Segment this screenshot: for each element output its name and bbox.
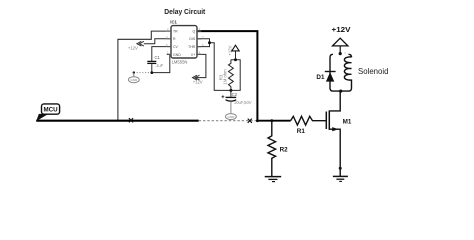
svg-text:R1: R1 [297,128,306,135]
svg-text:D1: D1 [316,74,325,81]
svg-text:R2: R2 [280,147,289,154]
svg-text:10uF,50V: 10uF,50V [234,100,252,105]
svg-text:GND: GND [173,53,181,57]
svg-text:M1: M1 [343,118,352,125]
svg-text:.1uF: .1uF [155,63,164,68]
svg-text:+12V: +12V [193,80,203,85]
svg-text:C2: C2 [232,92,238,97]
svg-text:MCU: MCU [43,107,58,114]
svg-text:GND: GND [130,78,138,82]
svg-text:Solenoid: Solenoid [358,67,389,76]
svg-text:+12V: +12V [128,45,138,50]
svg-text:DIS: DIS [189,37,196,41]
svg-text:1M ohm: 1M ohm [223,69,228,85]
svg-text:GND: GND [227,115,235,119]
svg-text:THR: THR [188,45,196,49]
svg-text:IC1: IC1 [170,19,177,24]
svg-text:LM555N: LM555N [172,59,188,64]
svg-text:V+: V+ [191,53,195,57]
svg-text:CV: CV [173,45,179,49]
svg-text:Q: Q [192,30,195,34]
svg-text:C1: C1 [155,55,161,60]
svg-text:TR: TR [173,30,178,34]
svg-text:Delay Circuit: Delay Circuit [164,7,205,16]
svg-text:+12V: +12V [227,45,232,55]
svg-text:+12V: +12V [332,27,351,34]
